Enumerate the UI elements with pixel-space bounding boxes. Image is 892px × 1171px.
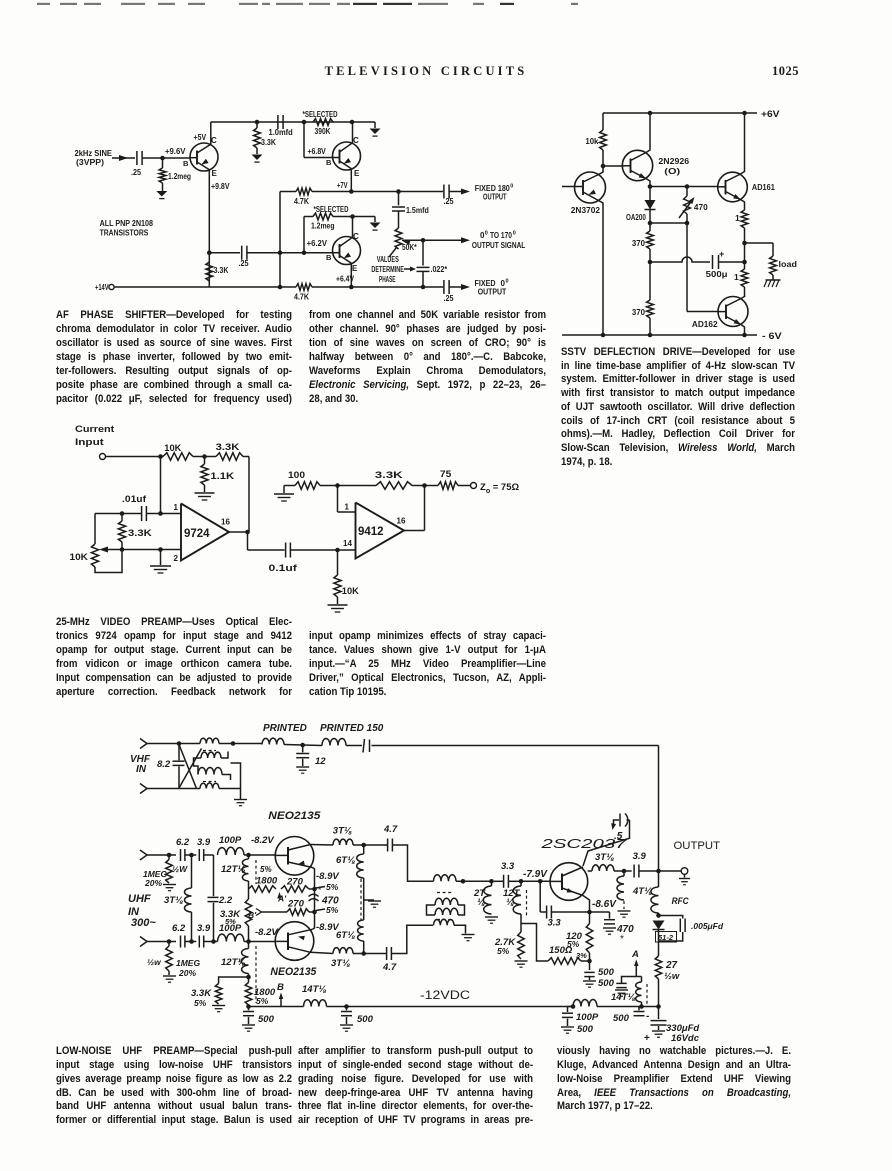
svg-text:.5: .5 [614,831,623,842]
svg-text:1: 1 [735,213,740,223]
wire 3.3K to 75 [412,485,438,487]
svg-text:6T⅛: 6T⅛ [336,855,355,866]
svg-text:Zo = 75Ω: Zo = 75Ω [480,482,519,495]
svg-text:RFC: RFC [672,896,689,907]
wire base node to Q1 [163,157,191,159]
svg-text:0: 0 [510,184,513,190]
svg-text:+: + [644,1033,650,1044]
wire 500u row with hop [650,257,710,262]
transistor NEO2135 bottom [275,922,314,961]
transistor Q2 [333,142,361,170]
svg-text:NEO2135: NEO2135 [270,966,317,978]
wire AD162 collector [741,297,745,299]
page top scan dashes [37,3,50,5]
transistor 2SC2037 [550,863,588,901]
svg-text:C: C [211,136,217,145]
terminal OUTPUT [681,868,688,875]
svg-text:½w: ½w [147,957,162,967]
input chevron stage top [140,850,147,860]
caption 25-MHz video preamp right column [309,629,546,643]
svg-text:9724: 9724 [184,528,210,540]
svg-text:5%: 5% [497,946,510,956]
wire coupling row [209,252,240,254]
svg-text:4T⅛: 4T⅛ [632,886,652,897]
inductor 12T1/8 top [248,855,250,859]
inductor 12T1/8 output [513,886,521,914]
svg-text:16: 16 [221,518,230,527]
wire bottom +14V rail [114,286,296,288]
ground at Q3 bias [370,223,381,229]
wire pin2 [122,549,181,551]
wire collector bottom to 3T coil [311,952,334,953]
svg-text:500μ: 500μ [706,269,728,279]
svg-text:IN: IN [136,764,147,775]
svg-text:4.7: 4.7 [382,962,397,973]
svg-text:3.3K: 3.3K [128,528,152,538]
interstage transformer fold brackets [427,905,436,915]
wire emitter row to AD161 base [650,186,718,188]
svg-text:PRINTED 150: PRINTED 150 [320,723,384,734]
transistor Q1 [190,143,218,171]
wire Q2 emitter to +7V rail [350,169,352,192]
svg-text:14T⅛: 14T⅛ [611,992,635,1003]
svg-text:½w: ½w [664,971,680,982]
wire 2N3702 emitter down [599,201,604,336]
capacitor 0.1uf [285,543,287,558]
capacitor .25 fixed 0 [443,280,445,294]
inductor 4T1/8 [623,871,625,876]
svg-text:+6V: +6V [761,109,780,119]
balun winding fold brackets [194,758,202,775]
capacitor 1.0mfd [277,115,279,129]
svg-text:.25: .25 [444,294,454,303]
svg-text:1: 1 [734,272,739,282]
wire rail right [597,1006,659,1008]
wire collector diagonal to .5 cap [583,820,630,866]
ground at pin2 [160,550,162,566]
ground shield tick [364,899,374,901]
capacitor 500 rail mid [346,1007,348,1011]
interstage transformer mid winding1 [435,898,458,905]
svg-text:500: 500 [577,1024,594,1035]
wire +7V rail [280,191,296,193]
capacitor 330uFd [658,1007,660,1020]
wire top rail [211,121,375,123]
svg-text:12T⅛: 12T⅛ [221,864,245,875]
wire emitter top down [313,868,315,926]
svg-text:TELEVISION CIRCUITS: TELEVISION CIRCUITS [325,64,528,78]
transistor AD161 [718,172,748,202]
svg-text:50K*: 50K* [402,243,417,252]
resistor 3.3K output [376,482,412,490]
svg-text:A: A [631,949,639,960]
wire emitter 2SC2037 [583,896,590,924]
svg-text:+9.8V: +9.8V [211,182,230,191]
interstage transformer mid winding2 [435,908,458,915]
wiper arrow 10K pot [103,549,122,551]
svg-text:B: B [326,253,332,262]
arrow values to cap [404,268,412,270]
svg-text:.01uf: .01uf [122,494,147,504]
capacitor 3.3 emitter [539,881,541,912]
balun output wires [231,741,236,746]
wire AD161 collector to rail [741,113,745,174]
inductor 3T shunt input [191,855,193,888]
svg-text:0: 0 [506,279,509,285]
svg-text:ALL PNP 2N108: ALL PNP 2N108 [100,219,154,228]
caption AF phase shifter left column [56,308,292,322]
balun cross diagonals [179,745,197,789]
resistor 75 [438,482,458,490]
svg-text:(O): (O) [664,166,680,176]
svg-text:3.3K: 3.3K [375,470,403,480]
resistor 3.3K interstage [248,889,250,900]
transistor NEO2135 top [275,837,314,876]
capacitor .022 [422,240,424,265]
ground balun [240,789,242,800]
wire 10K to 3.3K [193,456,216,458]
svg-text:PRINTED: PRINTED [263,723,307,734]
resistor 1 AD161 emitter [741,200,745,211]
svg-text:16Vdc: 16Vdc [671,1033,700,1044]
svg-text:B: B [183,159,189,168]
wire transformer to 2T node [456,880,492,882]
svg-text:UHF: UHF [128,893,151,905]
svg-text:AD161: AD161 [752,182,775,192]
svg-text:OUTPUT: OUTPUT [483,193,507,202]
wire coupling to Q3 base [247,252,333,254]
resistor 390K [313,119,333,126]
wire pot bottom wrap [95,550,122,573]
inductor 12T1/8 bottom [248,942,250,949]
resistor 3.3K top rail [256,122,258,128]
wire 3T to 4.7 bottom [364,953,387,955]
arrow values to pot [389,248,397,258]
svg-text:C: C [353,232,359,241]
svg-text:470: 470 [694,202,708,212]
wire to output node [639,870,659,872]
wire input 2kHz [112,157,135,159]
svg-text:1.2meg: 1.2meg [311,222,335,231]
svg-text:.022*: .022* [431,265,448,274]
wire c2 bottom rail [562,334,757,336]
label -5% row1 [316,887,325,889]
svg-text:3.3K: 3.3K [216,442,240,452]
svg-text:2: 2 [174,554,179,563]
svg-text:-: - [646,1011,649,1022]
capacitor 500 rail left [248,1007,250,1011]
svg-text:3.9: 3.9 [633,851,647,862]
svg-text:- 6V: - 6V [762,331,782,341]
svg-text:14T⅛: 14T⅛ [302,984,326,995]
svg-text:3.3K: 3.3K [214,266,229,275]
terminal current input [100,454,106,460]
wire input down to pin1 [160,457,162,514]
wire Q3 collector up [352,217,354,238]
wire emitter bottom up [313,925,315,929]
svg-text:100: 100 [288,470,305,480]
wire 9412 output [404,530,425,532]
svg-text:NEO2135: NEO2135 [268,810,321,822]
inductor printed 150 [322,739,346,746]
wire 12T bottom to 150 resistor [521,924,548,962]
svg-text:.25: .25 [444,197,454,206]
svg-text:3.3: 3.3 [501,861,515,872]
wire 3.3K to corner [243,456,249,458]
svg-text:1MEG: 1MEG [176,958,200,968]
ground at 1.1K [195,492,215,494]
svg-text:VALUES: VALUES [377,255,399,264]
svg-text:3.9: 3.9 [197,923,211,934]
resistor 1.2meg bias [313,213,333,220]
svg-text:4.7K: 4.7K [294,197,309,206]
capacitor .01uf [141,506,143,521]
wire top line to output column [372,745,659,747]
svg-text:Input: Input [75,437,105,448]
shield line mid [360,879,362,920]
svg-text:-8.2V: -8.2V [255,927,278,938]
node B arrow [280,996,282,1007]
svg-text:3.3: 3.3 [548,918,562,929]
diode OA200 [649,187,651,201]
svg-text:5%: 5% [225,917,236,926]
svg-text:2kHz SINE: 2kHz SINE [75,149,113,158]
svg-text:5%: 5% [194,998,207,1008]
capacitor series top line [363,739,365,753]
svg-text:+: + [719,249,724,259]
wire Q2 base feed [303,122,305,158]
resistor 100 [284,485,295,487]
resistor 120 5% [586,924,593,954]
capacitor .005ufd [659,916,683,919]
svg-text:5%: 5% [260,865,272,874]
wire collector top to 3T coil [311,844,334,847]
svg-text:20%: 20% [144,878,162,888]
svg-text:20%: 20% [178,968,196,978]
svg-text:E: E [212,169,218,178]
wire output down to 0.1uf row [247,532,249,550]
resistor 3.3K feedback2 [216,453,243,461]
label 5% row2 [316,909,325,911]
resistor 10K feedback1 [163,453,193,461]
svg-text:-12VDC: -12VDC [420,990,470,1002]
svg-text:-8.9V: -8.9V [316,871,339,882]
svg-text:500: 500 [598,978,615,989]
resistor 10k [602,113,604,130]
svg-text:1.5mfd: 1.5mfd [406,206,429,215]
wire bottom rail right [312,286,443,288]
svg-text:100P: 100P [576,1012,599,1023]
svg-text:1: 1 [345,503,350,512]
transistor 2N2926 [622,150,652,180]
input chevron VHF top [140,739,147,749]
resistor load [770,256,777,275]
ground at 100 resistor [283,486,285,494]
capacitor 470 feedback [309,894,319,896]
wire c2 top rail [603,112,757,114]
svg-text:A': A' [277,894,287,904]
op-amp 9412 [356,503,405,559]
ground at 1.2meg [156,191,167,197]
svg-text:9412: 9412 [358,526,384,538]
svg-text:1025: 1025 [772,64,799,78]
svg-text:370: 370 [632,307,645,317]
svg-text:Current: Current [75,424,115,435]
svg-text:10K: 10K [342,586,360,596]
svg-text:+9.6V: +9.6V [165,147,186,156]
svg-text:3T⅛: 3T⅛ [595,852,614,863]
svg-text:500: 500 [598,967,615,978]
svg-text:PHASE: PHASE [379,275,396,284]
wire +7V rail right [312,191,443,193]
interstage transformer top winding [434,875,457,882]
transistor 2N3702 [575,172,606,203]
svg-text:1.1K: 1.1K [210,471,234,481]
resistor 1MEG bottom [168,942,170,947]
wire 2N2926 collector to rail [646,113,650,153]
transistor AD162 [718,297,748,327]
wire 470 bottom row [650,222,687,224]
wire 3T to 4.7 top [364,844,388,846]
capacitor 2.2 interbase [213,855,215,896]
svg-text:1: 1 [174,503,179,512]
inductor printed 1 [262,738,284,744]
svg-text:2.2: 2.2 [218,895,233,906]
wiper arrow 0-170 output [402,240,410,245]
capacitor 1.5mfd [398,192,400,206]
svg-text:27: 27 [665,960,678,971]
balun winding bottom [179,788,200,790]
svg-text:14: 14 [343,539,352,548]
svg-text:5%: 5% [256,996,269,1006]
input chevron VHF bottom [140,784,147,794]
resistor 3.3K 5% bottom [219,977,249,984]
capacitor 8.2 balun [178,744,180,761]
ground interstage transformer [454,925,466,933]
resistor 370 upper [649,223,651,231]
node A' arrow [277,892,282,899]
svg-text:+5V: +5V [194,133,207,142]
wire left vertical x280 [279,192,281,288]
svg-text:2N3702: 2N3702 [571,205,600,215]
svg-text:500: 500 [357,1014,374,1025]
svg-text:0.1uf: 0.1uf [269,563,299,573]
svg-text:4.7: 4.7 [383,824,398,835]
wire Q3 emitter down [350,263,352,287]
svg-text:470: 470 [616,924,634,935]
capacitor 470 emitter bypass [609,912,611,919]
svg-text:1800: 1800 [256,876,278,887]
interstage transformer bottom winding [434,919,455,925]
caption UHF preamp column 1 [56,1044,292,1058]
svg-text:+6.8V: +6.8V [308,147,327,156]
wire pin1 9412 [338,511,356,513]
svg-text:C: C [353,136,359,145]
wire 100 to 3.3K [320,485,376,487]
svg-text:500: 500 [258,1014,275,1025]
resistor 4.7K lower rail [296,284,312,291]
svg-text:4.7K: 4.7K [294,293,309,302]
wire 1.2meg right to ground [333,216,375,218]
wire to cap 12 [284,745,322,746]
svg-text:10k: 10k [585,136,598,146]
svg-text:1.0mfd: 1.0mfd [269,128,293,137]
capacitor 12 [302,745,304,752]
svg-text:+6.4V: +6.4V [336,275,355,284]
svg-text:270: 270 [286,877,304,888]
svg-text:OUTPUT: OUTPUT [478,288,507,297]
potentiometer 10K input [91,544,98,567]
capacitor .5 feedback [619,814,621,827]
svg-text:+6.2V: +6.2V [307,239,328,248]
svg-text:*: * [318,885,322,895]
svg-text:3.9: 3.9 [197,837,211,848]
wire Q1 collector to top rail [210,122,212,144]
wire 9724 output [229,531,249,533]
ground hatched at load [766,279,781,281]
svg-text:5%: 5% [567,939,580,949]
svg-text:.25: .25 [239,259,249,268]
svg-text:OUTPUT SIGNAL: OUTPUT SIGNAL [472,241,525,250]
svg-text:6T⅛: 6T⅛ [336,930,355,941]
wire rail middle [327,1006,574,1008]
svg-text:10K: 10K [70,552,89,562]
wire VHF top [147,743,179,745]
svg-text:3%: 3% [576,951,587,960]
capacitor .25 fixed 180 [443,185,445,199]
svg-text:B: B [277,982,284,993]
wire feedback vertical [248,457,250,533]
wire VHF bottom [147,788,179,790]
inductor 14T1/8 output [641,977,643,983]
resistor 150ohm 3% [548,958,581,965]
resistor 10K lower [337,550,339,575]
svg-text:8.2: 8.2 [157,759,171,770]
svg-text:TRANSISTORS: TRANSISTORS [100,229,149,238]
svg-text:100P: 100P [219,835,242,846]
wire input to base node [142,157,162,159]
input chevron stage bottom [140,937,147,947]
op-amp 9724 [181,504,229,561]
wire top line to printed coil [233,743,262,745]
svg-text:2N2926: 2N2926 [658,156,689,166]
capacitor 500u [712,255,714,269]
svg-text:3T⅛: 3T⅛ [331,958,350,969]
capacitor .25 coupling [241,246,243,260]
wire 4.7 bottom to transformer [391,925,433,953]
wire bottom supply rail [249,1006,304,1008]
potentiometer 50K [398,211,400,228]
svg-text:0: 0 [485,231,488,237]
caption 25-MHz video preamp left column [56,615,292,629]
svg-text:370: 370 [632,238,645,248]
resistor 370 lower [649,262,651,300]
svg-text:6.2: 6.2 [172,923,186,934]
caption AF phase shifter right column [309,308,546,322]
wire base 2N2926 [603,165,622,167]
svg-text:5%: 5% [326,882,339,892]
balun winding mid2 [198,768,222,775]
svg-text:*: * [620,934,624,945]
diode SI-2 varactor [653,921,665,930]
svg-text:OA200: OA200 [626,212,646,222]
inductor 2T1/8 [483,886,491,914]
resistor 1 AD162 collector [744,262,746,269]
wire 1.2meg left leg [303,217,305,253]
svg-text:500: 500 [613,1013,630,1024]
svg-text:+7V: +7V [337,181,348,190]
wire 0.1uf to pin14 [290,549,355,551]
